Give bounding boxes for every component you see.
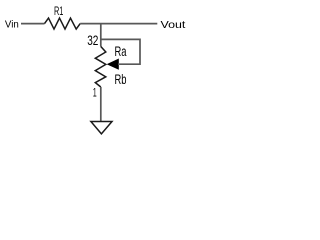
- wire pot bottom to ground: [100, 87, 102, 121]
- svg-text:32: 32: [87, 33, 98, 48]
- svg-text:Vout: Vout: [161, 19, 186, 31]
- potentiometer Ra/Rb body: [95, 47, 106, 88]
- potentiometer wiper arrow: [107, 59, 119, 70]
- ground: [91, 122, 112, 134]
- svg-text:Ra: Ra: [115, 44, 127, 59]
- wire Vin to R1: [21, 23, 45, 25]
- svg-text:1: 1: [93, 86, 97, 100]
- svg-text:Rb: Rb: [115, 72, 127, 87]
- wire wiper loop to top terminal: [102, 39, 141, 64]
- resistor R1: [45, 18, 81, 29]
- wire R1 to Vout: [80, 23, 157, 25]
- svg-text:R1: R1: [54, 4, 64, 18]
- node junction wire down from top rail: [100, 24, 102, 47]
- svg-text:Vin: Vin: [5, 20, 19, 31]
